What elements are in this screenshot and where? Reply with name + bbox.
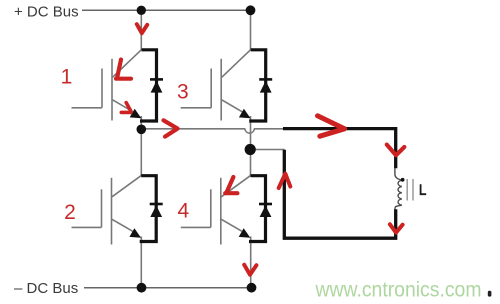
svg-text:1: 1: [61, 66, 73, 89]
svg-text:– DC Bus: – DC Bus: [14, 280, 78, 297]
svg-text:3: 3: [177, 81, 189, 104]
svg-text:4: 4: [178, 199, 190, 222]
svg-text:+ DC Bus: + DC Bus: [14, 4, 79, 21]
svg-text:www.cntronics.com: www.cntronics.com: [315, 279, 482, 302]
svg-text:2: 2: [64, 201, 76, 224]
